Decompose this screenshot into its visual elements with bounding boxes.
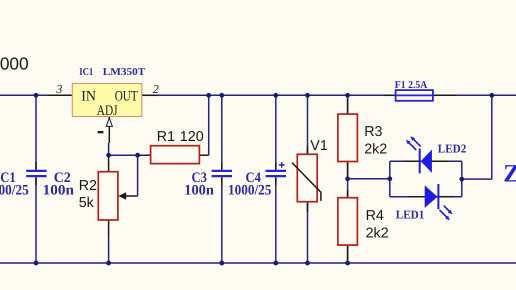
- svg-text:OUT: OUT: [115, 89, 138, 105]
- svg-text:120: 120: [180, 129, 204, 145]
- svg-text:3: 3: [55, 82, 62, 96]
- svg-text:4000: 4000: [0, 53, 29, 73]
- svg-text:Z: Z: [503, 160, 516, 187]
- svg-text:IN: IN: [81, 89, 96, 105]
- svg-text:F1 2.5A: F1 2.5A: [395, 80, 428, 91]
- svg-text:100n: 100n: [184, 182, 214, 198]
- svg-text:V1: V1: [310, 138, 328, 154]
- svg-text:2k2: 2k2: [364, 141, 387, 157]
- svg-text:LM350T: LM350T: [103, 67, 146, 78]
- svg-text:LED2: LED2: [438, 142, 467, 156]
- svg-text:R2: R2: [79, 178, 97, 194]
- svg-text:1000/25: 1000/25: [0, 182, 29, 198]
- svg-text:1000/25: 1000/25: [228, 182, 271, 198]
- svg-text:2k2: 2k2: [366, 226, 389, 242]
- svg-text:2: 2: [153, 82, 159, 96]
- svg-text:R1: R1: [157, 129, 175, 145]
- svg-text:100n: 100n: [43, 182, 74, 198]
- svg-text:5k: 5k: [79, 195, 95, 211]
- svg-text:LED1: LED1: [396, 207, 425, 221]
- svg-text:IC1: IC1: [79, 67, 93, 78]
- svg-text:ADJ: ADJ: [97, 103, 118, 119]
- svg-text:R4: R4: [366, 208, 384, 224]
- svg-text:R3: R3: [364, 124, 382, 140]
